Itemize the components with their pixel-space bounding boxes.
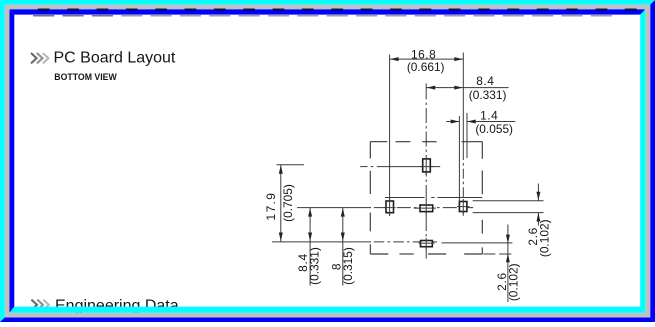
dimension 1.4 line left tail <box>446 121 459 123</box>
center line vertical through pads <box>425 83 427 99</box>
svg-text:(0.331): (0.331) <box>469 88 507 102</box>
dimension 2.6 right upper tail <box>537 184 539 201</box>
center line horizontal top pad row <box>360 166 367 168</box>
svg-text:17.9: 17.9 <box>264 192 278 221</box>
center tick through right pad <box>462 199 464 214</box>
dimension 17.9 top extension line <box>277 164 305 166</box>
extension line right pad column left edge <box>458 116 460 201</box>
relay outline left edge <box>369 142 371 159</box>
relay outline bottom edge <box>370 253 388 255</box>
row A horizontal line <box>385 197 425 199</box>
dimension 2.6 right lower tail <box>537 213 539 226</box>
section header chevrons <box>31 53 37 63</box>
pad hole middle-right (coil) <box>459 202 467 212</box>
relay outline right edge <box>481 142 483 159</box>
svg-text:(0.102): (0.102) <box>507 263 521 301</box>
frame middle ring: grey <box>5 5 650 10</box>
pad hole top (coil) <box>423 159 431 172</box>
extension line right pad column center (long) <box>462 53 464 151</box>
extension line left pad column <box>389 55 391 217</box>
right pad bottom-edge extension line <box>473 212 544 214</box>
center tick through bottom pad <box>425 238 427 249</box>
dimension 8 vertical line <box>342 208 344 286</box>
svg-text:(0.661): (0.661) <box>407 60 445 74</box>
bottom row center line through bottom pad <box>374 241 437 243</box>
svg-text:(0.055): (0.055) <box>475 122 513 136</box>
relay outline (dashed rectangle) top edge <box>370 141 387 143</box>
dimension 16.8 line <box>390 58 464 60</box>
center tick through top pad <box>425 158 427 175</box>
remnant text marks above top border <box>38 8 637 10</box>
svg-text:(0.331): (0.331) <box>307 247 321 285</box>
svg-text:BOTTOM VIEW: BOTTOM VIEW <box>54 72 117 82</box>
frame inner ring: blue top/left, cyan bottom/right <box>10 9 646 14</box>
pad hole middle-center <box>420 205 433 212</box>
engineering data chevrons <box>31 300 37 310</box>
right pad top-edge extension line <box>473 200 544 202</box>
dimension 1.4 line right tail <box>467 121 515 123</box>
remnant text line below top border <box>33 15 612 16</box>
pad hole middle-left <box>386 201 394 213</box>
dimension 17.9 line <box>280 165 282 242</box>
svg-text:(0.705): (0.705) <box>281 184 295 222</box>
bottom row extension line (right, solid) <box>442 242 513 244</box>
extension line right pad column right edge <box>466 113 468 158</box>
center tick through center pad <box>425 203 427 214</box>
svg-text:8.4: 8.4 <box>476 74 494 88</box>
svg-text:(0.315): (0.315) <box>341 247 355 285</box>
dimension 2.6 bottom vertical line <box>507 225 509 303</box>
dimension 8.4 vertical line <box>309 208 311 286</box>
svg-text:PC Board Layout: PC Board Layout <box>54 50 176 67</box>
center tick through left pad <box>389 199 391 215</box>
svg-text:1.4: 1.4 <box>480 108 498 122</box>
relay outline bottom-right extension line <box>483 253 512 255</box>
svg-text:(0.102): (0.102) <box>537 219 551 257</box>
pad hole bottom <box>421 241 433 247</box>
frame outer ring: cyan top/left, blue bottom/right <box>0 0 655 5</box>
bottom row extension line (left, solid) <box>272 241 371 243</box>
dimension 8.4 top line <box>426 87 508 89</box>
row B extension line (left, solid) <box>297 207 371 209</box>
row B center line through middle pads <box>374 207 474 209</box>
